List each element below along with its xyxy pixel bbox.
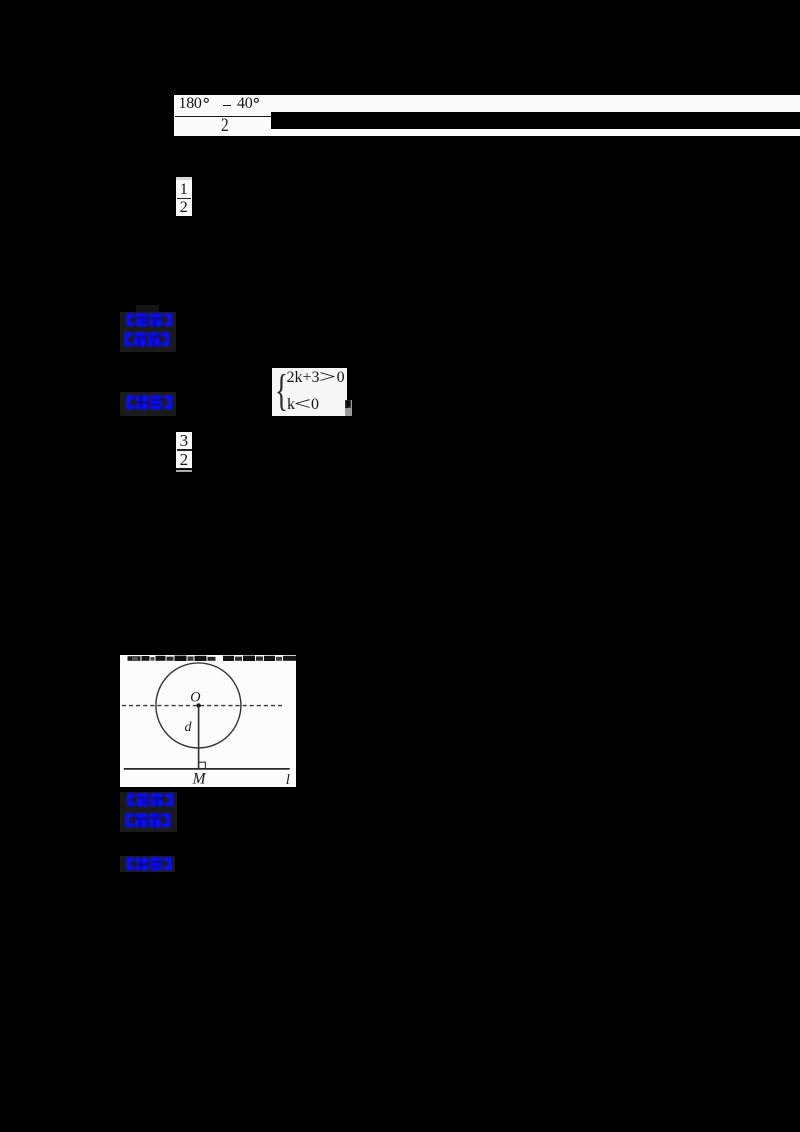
denominator 2	[221, 116, 229, 135]
figure: circle tangent to line	[120, 655, 296, 787]
label 【考点】 blue line 1 (group B) halo	[120, 792, 177, 833]
right angle mark	[199, 762, 206, 768]
svg-text:d: d	[185, 720, 193, 735]
garbled clipped text strip	[128, 656, 297, 661]
svg-text:l: l	[286, 772, 290, 787]
label 【解答】 blue line 3 (group B) halo	[120, 856, 175, 873]
blob	[126, 395, 172, 410]
formula image: fraction 3/2	[176, 432, 192, 471]
line 1: 2k+3>0	[287, 370, 345, 385]
line 2: k<0	[287, 397, 319, 412]
gray comma box	[345, 400, 352, 416]
formula image: fraction 1/2	[176, 177, 192, 216]
brace {	[275, 369, 288, 413]
formula image: (180°-40°)/2 numerator strip	[174, 95, 800, 112]
dashed horizontal line	[122, 705, 282, 707]
right white strip segment	[271, 129, 800, 136]
label 【解答】 blue line 3 (group A) halo	[120, 392, 176, 417]
fraction bar	[175, 116, 271, 118]
svg-text:O: O	[190, 689, 200, 705]
comma	[345, 400, 351, 409]
line l	[124, 768, 290, 770]
circle O	[156, 663, 241, 748]
vertical segment d	[198, 706, 200, 769]
formula image: system {2k+3>0 ; k<0	[272, 368, 347, 416]
center dot	[196, 703, 200, 707]
formula text 180° - 40°	[179, 96, 202, 112]
label 【考点】 blue line 1 (group A) halo	[120, 312, 176, 352]
label 【考点】 blue blob	[126, 313, 172, 327]
svg-text:M: M	[192, 771, 207, 787]
label 【分析】 blue line 2 (group A)	[124, 332, 169, 347]
formula denominator box	[174, 112, 271, 136]
label 【分析】 blue line 2 (group B)	[125, 813, 170, 828]
